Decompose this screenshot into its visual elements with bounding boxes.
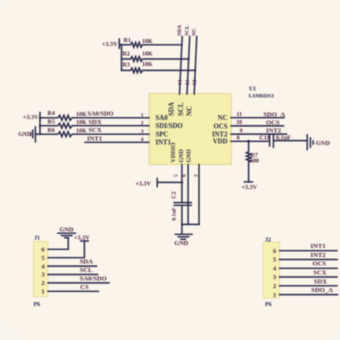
svg-text:600: 600 [250, 158, 259, 164]
svg-text:SA0/SDO: SA0/SDO [80, 276, 107, 283]
svg-text:C2: C2 [172, 191, 178, 198]
svg-text:5: 5 [173, 174, 179, 177]
svg-text:INT1: INT1 [311, 243, 326, 250]
svg-text:GND: GND [187, 149, 193, 163]
svg-text:SA0/SDO: SA0/SDO [88, 110, 114, 117]
svg-text:+3.3V: +3.3V [102, 41, 118, 48]
svg-text:R2: R2 [123, 52, 130, 58]
svg-text:NC: NC [186, 106, 194, 116]
svg-text:SDO_A: SDO_A [311, 287, 333, 294]
svg-text:CS: CS [80, 284, 89, 291]
svg-text:10K: 10K [142, 39, 153, 45]
svg-text:GND: GND [179, 149, 185, 163]
svg-text:SDO_A: SDO_A [264, 111, 286, 118]
svg-text:SDA: SDA [177, 25, 183, 36]
svg-text:7: 7 [194, 174, 200, 177]
svg-text:2: 2 [273, 283, 276, 290]
svg-text:SPC: SPC [156, 132, 169, 139]
svg-text:4: 4 [141, 137, 144, 143]
svg-text:10K: 10K [76, 129, 87, 135]
svg-text:+3.3V: +3.3V [135, 180, 151, 187]
svg-text:VDD: VDD [213, 139, 228, 146]
svg-text:1: 1 [141, 113, 144, 119]
svg-text:6: 6 [181, 174, 187, 177]
svg-text:J2: J2 [265, 237, 271, 243]
svg-text:SDA: SDA [80, 259, 93, 266]
svg-text:3: 3 [273, 274, 276, 281]
svg-text:12: 12 [192, 80, 198, 86]
svg-text:OCS: OCS [313, 261, 327, 268]
svg-text:R4: R4 [48, 111, 55, 117]
svg-text:5: 5 [273, 257, 276, 264]
svg-text:VDDIO: VDDIO [171, 142, 177, 162]
svg-text:0.1uF: 0.1uF [276, 134, 291, 141]
svg-text:GND: GND [316, 140, 330, 147]
svg-text:8: 8 [237, 136, 240, 142]
svg-text:+3.3V: +3.3V [74, 235, 90, 242]
svg-text:P6: P6 [265, 302, 272, 308]
svg-text:C11: C11 [259, 134, 269, 141]
svg-text:INT1: INT1 [87, 136, 102, 143]
svg-text:LSM6DS3: LSM6DS3 [249, 93, 274, 99]
svg-text:SDI/SDO: SDI/SDO [156, 123, 183, 130]
svg-text:+3.3V: +3.3V [23, 114, 39, 121]
svg-text:R1: R1 [124, 38, 131, 44]
svg-text:10K: 10K [142, 51, 153, 57]
svg-text:R6: R6 [48, 128, 55, 134]
svg-text:INT1: INT1 [156, 140, 172, 147]
svg-text:SCX: SCX [89, 127, 102, 134]
svg-text:SCL: SCL [177, 102, 185, 116]
svg-text:SCL: SCL [185, 25, 191, 36]
svg-text:14: 14 [178, 80, 184, 86]
svg-text:GND: GND [18, 132, 31, 138]
svg-text:1: 1 [41, 289, 44, 296]
svg-text:10K: 10K [76, 112, 87, 118]
svg-text:R3: R3 [123, 62, 130, 68]
svg-text:SDX: SDX [314, 278, 327, 285]
svg-text:NC: NC [192, 28, 198, 36]
svg-text:GND: GND [60, 226, 74, 233]
svg-text:U1: U1 [249, 87, 256, 93]
svg-text:10K: 10K [76, 120, 87, 126]
svg-text:10: 10 [236, 120, 242, 126]
svg-text:10K: 10K [142, 62, 153, 68]
svg-text:INT2: INT2 [311, 252, 327, 259]
svg-text:1: 1 [273, 292, 276, 299]
svg-text:OCS: OCS [214, 123, 228, 130]
svg-text:11: 11 [237, 112, 243, 118]
svg-text:SCL: SCL [80, 267, 93, 274]
svg-text:GND: GND [174, 240, 188, 247]
svg-text:0.1uF: 0.1uF [172, 207, 178, 221]
svg-text:13: 13 [185, 80, 191, 86]
svg-text:SDA: SDA [167, 102, 175, 116]
svg-text:SCX: SCX [313, 270, 326, 277]
svg-text:2: 2 [141, 120, 144, 126]
svg-text:9: 9 [240, 128, 243, 134]
svg-text:R5: R5 [48, 119, 55, 125]
svg-text:3: 3 [141, 129, 144, 135]
svg-text:P6: P6 [34, 302, 41, 308]
svg-text:NC: NC [218, 115, 228, 122]
svg-text:INT2: INT2 [212, 132, 228, 139]
svg-text:SDX: SDX [89, 119, 102, 126]
svg-text:SA0: SA0 [156, 115, 169, 122]
svg-text:J1: J1 [34, 236, 40, 242]
svg-text:OCS: OCS [266, 119, 280, 126]
svg-text:+3.3V: +3.3V [242, 184, 258, 191]
